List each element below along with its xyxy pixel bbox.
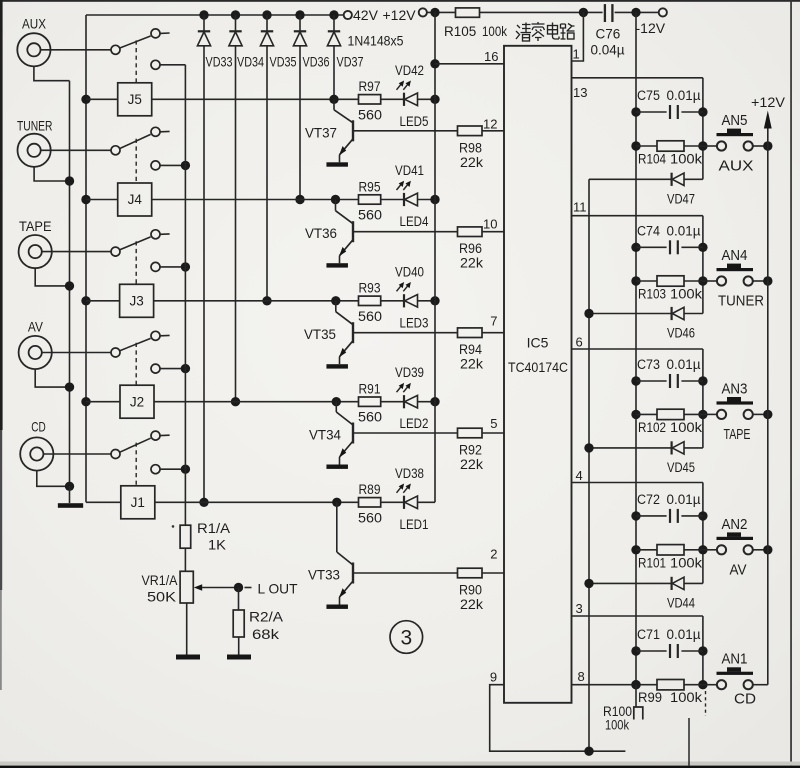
switch S4 lower throw contact [151,161,160,170]
svg-text:R90: R90 [459,583,482,598]
wire: R96 to IC pin 10 [482,231,504,233]
svg-text:VR1/A: VR1/A [142,573,178,588]
resistor R96 22k [458,227,483,237]
node: pin1 tap on reset rail [579,8,588,17]
wire: VD35 cathode drop to relay line [266,46,268,301]
jack AUX input socket [17,33,50,66]
relay J4 [118,183,152,216]
switch S5 arm [120,36,151,48]
svg-text:LED2: LED2 [400,416,429,431]
diode VD46 [589,313,672,315]
wire: CD jack to switch pole [43,453,111,455]
svg-text:AV: AV [28,318,44,334]
wire: wiper to L OUT [202,587,239,589]
wire: R92 to IC pin 5 [482,432,504,434]
wire: TUNER shield to ground bus [34,167,69,182]
switch S2 lower throw contact [151,364,160,373]
transistor VT36 [335,200,337,211]
capacitor C74 0.01u [631,243,640,252]
wire: upper throw stub [160,434,169,436]
resistor R104 100k [631,141,640,150]
resistor R103 100k [631,276,640,285]
resistor R95 560 [359,195,381,204]
wire: IC pin 4 to AN2 group [572,482,703,484]
wire: lower throw to selected-signal bus [160,266,185,268]
ground (R2/A) [227,655,251,660]
svg-text:AN5: AN5 [722,112,748,129]
svg-text:AUX: AUX [719,158,754,175]
svg-text:R91: R91 [359,382,381,397]
node: L OUT junction [234,583,243,592]
wire: C76 to -12V terminal [615,11,659,13]
switch S3 arm [120,237,151,250]
wire: base line VT36 [353,231,458,233]
wire: IC pin 6 to AN3 group [572,348,703,350]
wire: supply bus to J2 coil [86,401,120,403]
svg-text:J2: J2 [130,394,144,409]
wire: J2 coil drive line [154,401,359,403]
wire: R98 to IC pin 12 [482,130,504,132]
svg-text:100k: 100k [482,24,507,39]
node: ground bus junction TUNER [65,176,74,185]
svg-text:LED4: LED4 [400,214,429,229]
wire: supply bus to J4 coil [86,199,118,201]
wire: J1 coil drive line [155,501,359,503]
svg-text:8: 8 [578,669,585,684]
svg-text:100k: 100k [670,420,702,435]
resistor R89 560 [359,498,381,507]
svg-text:0.01µ: 0.01µ [667,627,701,642]
svg-text:100k: 100k [670,152,702,167]
wire: VR1/A to ground [186,603,188,655]
svg-text:VD41: VD41 [395,163,424,178]
svg-text:R96: R96 [459,241,482,256]
wire: VD36 cathode drop to relay line [299,46,301,200]
node: collector junction VT35 [331,296,340,305]
svg-text:AN2: AN2 [722,516,748,533]
switch S1 pole contact [111,450,120,459]
wire: base line VT37 [353,130,458,132]
node: R99 left junction [631,680,640,689]
svg-text:22k: 22k [460,457,483,472]
node: -12V bus tap [631,8,640,17]
label +12V (right) [764,111,772,129]
wire: lower throw to selected-signal bus [160,164,185,166]
svg-text:560: 560 [358,510,382,525]
wire: J4 coil drive line [152,199,359,201]
ground (emitter VT33) [326,605,348,609]
node: +12V rail junction AN2 [763,545,772,554]
svg-text:R105: R105 [444,24,476,39]
label L OUT [245,587,252,589]
node: +12V rail junction AN4 [763,276,772,285]
svg-text:VT37: VT37 [305,125,337,140]
svg-text:VD37: VD37 [337,55,364,70]
switch S1 arm [120,438,151,452]
capacitor C76 0.04u [604,4,606,22]
wire: IC pin 8 to R99 [572,684,637,686]
label: qing-ling-dian-lu (clear circuit) [516,22,575,41]
linkage (dashed) relay J5 to switch [135,40,137,82]
svg-text:100k: 100k [605,718,629,733]
diode VD44 [589,582,672,584]
LED VD42 (LED5) [403,93,405,106]
wire: lower throw to selected-signal bus [160,64,185,66]
svg-text:J4: J4 [128,192,143,207]
push button AN3 [703,413,717,415]
node: signal bus junction [181,364,190,373]
svg-text:TAPE: TAPE [724,426,751,443]
wire: LED2 anode to +12V LED bus [418,401,436,403]
wire: R95 to LED4 [381,199,404,201]
svg-text:10: 10 [483,216,497,231]
transistor VT35 [335,301,337,312]
LED VD40 (LED3) [403,294,405,307]
node: LED anode bus junction [430,195,439,204]
resistor R105 100k [456,8,480,17]
resistor R91 560 [359,397,381,406]
wire: LED4 anode to +12V LED bus [418,199,436,201]
svg-text:+12V: +12V [751,94,786,110]
svg-text:100k: 100k [670,690,702,705]
svg-text:1K: 1K [208,538,226,553]
resistor R1/A 1K [180,525,191,548]
svg-text:R89: R89 [359,482,381,497]
svg-text:R2/A: R2/A [249,610,283,625]
wire: jack shield ground bus [69,81,71,487]
svg-text:VT34: VT34 [309,428,341,443]
wire: R90 to IC pin 2 [482,572,504,574]
svg-text:C74: C74 [637,223,660,238]
svg-text:50K: 50K [147,590,176,605]
svg-text:1N4148x5: 1N4148x5 [348,34,404,49]
svg-text:R93: R93 [359,281,381,296]
svg-text:C75: C75 [637,88,660,103]
node: reset bus junction VD46 [584,309,593,318]
capacitor C75 0.01u [631,107,640,116]
wire: relay coil supply bus from 42V rail [85,15,87,502]
svg-text:C73: C73 [637,357,660,372]
ground (jack shield bus) [69,486,71,503]
wire: R2/A to ground [238,637,240,655]
switch S2 arm [120,338,151,350]
linkage (dashed) relay J1 to switch [135,443,137,486]
wire: VD37 cathode drop to relay line [333,46,335,99]
svg-text:0.04µ: 0.04µ [591,43,625,58]
node: supply bus to J3 [81,296,90,305]
svg-text:R1/A: R1/A [197,521,230,536]
svg-text:560: 560 [358,410,382,425]
wire: IC pin 3 to AN1 group [572,615,703,617]
svg-text:560: 560 [358,309,382,324]
node: VD34 tap on relay drive line [231,397,240,406]
svg-text:VD34: VD34 [237,55,264,70]
svg-text:VD46: VD46 [667,326,695,341]
node: rail tap VD33 [199,10,208,19]
wire: base line VT35 [353,332,458,334]
wire: AUX jack to switch pole [41,49,112,51]
svg-text:VD42: VD42 [395,63,424,78]
svg-text:22k: 22k [460,155,483,170]
capacitor C72 0.01u [631,511,640,520]
svg-text:VD33: VD33 [206,55,233,70]
node: VD33 tap on relay drive line [199,498,208,507]
linkage (dashed) relay J4 to switch [135,139,137,183]
ground (emitter VT34) [326,465,348,469]
svg-text:AN1: AN1 [722,651,748,668]
svg-text:3: 3 [576,601,583,616]
svg-text:VD47: VD47 [667,191,695,206]
wire: LED3 anode to +12V LED bus [418,300,436,302]
terminal 42V [344,11,352,19]
svg-text:J3: J3 [129,294,143,309]
node: +12V rail junction AN5 [763,141,772,150]
svg-text:C76: C76 [596,27,621,42]
switch S4 arm [120,134,151,148]
svg-text:TC40174C: TC40174C [508,360,568,375]
resistor R102 100k [631,410,640,419]
node: rail tap VD34 [231,10,240,19]
wire: +12V LED anode bus [434,12,436,502]
svg-text:AN3: AN3 [722,380,748,397]
svg-text:68k: 68k [252,627,279,642]
resistor R93 560 [359,296,381,305]
svg-text:CD: CD [734,691,756,708]
push button AN1 [703,684,717,686]
node: rail tap VD35 [262,10,271,19]
svg-text:AUX: AUX [22,16,47,32]
diode VD47 [589,178,672,180]
svg-text:+12V: +12V [383,7,417,23]
node: signal bus junction [181,262,190,271]
node: +12V / LED anode bus tap [430,8,439,17]
node: reset bus junction VD45 [584,443,593,452]
svg-text:11: 11 [573,200,587,215]
wire: IC pin 13 to AN5 group [572,77,703,79]
wire: supply bus to J5 coil [86,98,118,100]
svg-text:J1: J1 [131,495,145,510]
svg-text:2: 2 [490,547,497,562]
svg-text:AN4: AN4 [722,247,748,264]
LED VD38 (LED1) [403,496,405,509]
node: signal bus junction [181,465,190,474]
svg-text:R101: R101 [638,555,666,570]
switch S3 lower throw contact [151,262,160,271]
node: supply bus to J5 [81,95,90,104]
node: ground bus junction AV [65,382,74,391]
resistor R92 22k [458,428,483,438]
switch S5 upper throw contact [151,29,160,38]
push button AN4 [703,280,717,282]
push button AN2 [703,549,717,551]
wire: R91 to LED2 [381,401,404,403]
wire: signal bus to volume pot [184,469,186,525]
svg-text:560: 560 [358,107,382,122]
wire: pin 1 to reset rail [572,12,584,61]
wire: 42V relay supply rail [86,14,344,16]
ground (emitter VT36) [326,263,348,267]
wire: CD shield to ground bus [37,470,70,486]
potentiometer VR1/A 50K [180,571,193,603]
svg-text:9: 9 [490,670,497,685]
diode VD45 [589,447,672,449]
wire: base line VT33 [353,572,458,574]
node: rail tap VD36 [295,10,304,19]
switch S2 pole contact [111,348,120,357]
svg-text:R95: R95 [359,179,381,194]
resistor R2/A 68k [238,588,240,611]
switch S1 upper throw contact [151,431,160,440]
wire: upper throw stub [160,233,169,235]
node: VD35 tap on relay drive line [262,296,271,305]
wire: lower throw to selected-signal bus [160,368,185,370]
wire: cut line below AN1 (dashed) [705,691,707,716]
svg-text:IC5: IC5 [527,335,549,351]
wire: reset bus (diode OR to pin 9) [588,179,590,751]
wire: selected signal bus [184,65,186,469]
node: supply bus to J2 [81,397,90,406]
resistor R98 22k [458,126,483,136]
svg-text:12: 12 [483,117,497,132]
svg-text:C72: C72 [637,492,660,507]
svg-text:CD: CD [31,418,46,434]
svg-text:LED1: LED1 [400,517,429,532]
wire: R97 to LED5 [381,98,404,100]
svg-text:TUNER: TUNER [17,118,53,134]
svg-text:560: 560 [358,208,382,223]
wire: LED5 anode to +12V LED bus [418,98,436,100]
svg-text:R97: R97 [359,79,381,94]
wire: TAPE shield to ground bus [35,268,69,286]
svg-text:VD35: VD35 [270,55,297,70]
wire: R94 to IC pin 7 [482,332,504,334]
wire: VD34 cathode drop to relay line [235,46,237,402]
wire: upper throw stub [160,130,169,132]
svg-text:L OUT: L OUT [258,581,298,597]
capacitor C73 0.01u [631,376,640,385]
node: +12V rail junction AN3 [763,410,772,419]
jack AV input socket [19,336,52,369]
wire: supply bus to J1 coil [86,501,121,503]
svg-text:VD39: VD39 [395,365,424,380]
node: reset bus junction VD44 [584,579,593,588]
node: reset bus to pin 9 line [584,747,593,756]
wire: LED1 anode to +12V LED bus [418,501,436,503]
svg-text:22k: 22k [460,357,483,372]
node: VD36 tap on relay drive line [295,195,304,204]
svg-text:0.01µ: 0.01µ [667,223,701,238]
switch S2 upper throw contact [151,331,160,340]
wire: AUX shield to ground bus [34,66,70,81]
transistor VT37 [333,99,335,110]
svg-text:0.01µ: 0.01µ [667,492,701,507]
svg-text:R99: R99 [638,690,662,705]
op-amp U: IC5 TC40174C (hex D flip-flop) [504,46,572,703]
switch S4 upper throw contact [151,127,160,136]
svg-text:7: 7 [490,314,497,329]
svg-text:22k: 22k [460,597,483,612]
wire: upper throw stub [160,32,169,34]
svg-text:J5: J5 [128,92,142,107]
transistor VT34 [335,402,337,412]
resistor R101 100k [631,545,640,554]
resistor R90 22k [458,568,483,578]
svg-text:42V: 42V [353,7,379,23]
svg-text:TUNER: TUNER [718,293,764,310]
node: collector junction VT36 [331,195,340,204]
svg-text:100k: 100k [670,555,702,570]
wire: R93 to LED3 [381,300,404,302]
wire: supply bus to J3 coil [86,300,120,302]
svg-text:R92: R92 [459,443,482,458]
resistor R97 560 [359,95,381,104]
wire: R1/A to VR1/A [184,548,186,571]
wire: lower throw to selected-signal bus [160,468,185,470]
switch S5 lower throw contact [151,60,160,69]
svg-text:R104: R104 [638,152,666,167]
svg-text:AV: AV [730,561,747,578]
svg-text:VT36: VT36 [305,226,337,241]
svg-text:TAPE: TAPE [19,218,52,234]
node: supply bus to J4 [81,195,90,204]
svg-text:13: 13 [573,85,587,100]
LED VD41 (LED4) [403,193,405,206]
capacitor C71 0.01u [631,646,640,655]
svg-text:1: 1 [573,47,580,62]
svg-text:VT33: VT33 [308,568,340,583]
svg-text:R98: R98 [459,140,482,155]
svg-text:R94: R94 [459,342,482,357]
node: LED anode bus junction [430,95,439,104]
node: collector junction VT34 [332,397,341,406]
svg-text:C71: C71 [637,627,660,642]
LED VD39 (LED2) [403,395,405,408]
relay J2 [120,385,154,418]
push button AN5 [703,145,717,147]
svg-text:16: 16 [484,49,498,64]
svg-text:VT35: VT35 [304,327,336,342]
node: LED anode bus junction [430,397,439,406]
resistor R99 100k [631,680,640,689]
relay J1 [121,486,155,519]
wire: IC pin 9 to reset bus (bottom) [490,685,626,752]
ground (emitter VT37) [326,162,348,166]
wire: R89 to LED1 [381,501,404,503]
linkage (dashed) relay J2 to switch [135,343,137,385]
svg-text:VD38: VD38 [395,466,424,481]
relay J5 [118,83,152,116]
wire: IC pin 11 to AN4 group [572,215,703,217]
svg-text:VD44: VD44 [667,595,695,610]
svg-text:22k: 22k [460,256,483,271]
wire: J3 coil drive line [154,300,359,302]
svg-text:R102: R102 [638,420,666,435]
node: LED anode bus junction [430,296,439,305]
wire: TAPE jack to switch pole [42,251,111,253]
transistor VT33 [336,502,338,552]
svg-text:VD40: VD40 [395,264,424,279]
svg-text:LED3: LED3 [400,315,429,330]
svg-text:3: 3 [400,627,412,650]
node: rail tap VD37 [329,10,338,19]
wire: TUNER jack to switch pole [41,149,112,151]
figure number 3 [390,621,423,654]
switch S3 pole contact [111,247,120,256]
wire: upper throw stub [160,334,169,336]
switch S5 pole contact [111,45,120,54]
node: ground bus junction CD [65,482,74,491]
jack TUNER input socket [17,134,50,167]
